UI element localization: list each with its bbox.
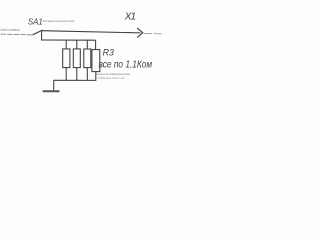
wire: R3.2 top lead [76, 40, 78, 49]
svg-text:SA1: SA1 [28, 18, 43, 27]
resistor R3.4 [92, 50, 100, 72]
wire: dashed continuation to right edge [144, 32, 162, 34]
wire: bottom bus [54, 79, 97, 81]
svg-text:подбирал под пта: подбирал под пта [97, 76, 124, 80]
wire: R3.4 top lead (bus corner) [95, 40, 97, 49]
switch SA1 lever [33, 30, 43, 35]
wire: dashed stub from left edge to SA1 pole [1, 33, 33, 36]
wire: R3.4 bottom lead [95, 72, 97, 81]
svg-text:для переключения настроек: для переключения настроек [43, 19, 76, 23]
wire: R3.1 top lead [65, 40, 67, 49]
wire: R3.3 bottom lead [86, 68, 88, 81]
wire: R3.2 bottom lead [76, 68, 78, 81]
connector X1 arrow head [137, 28, 143, 37]
svg-text:X1: X1 [124, 12, 136, 23]
wire: R3.1 bottom lead [65, 68, 67, 81]
resistor R3.1 [63, 49, 70, 68]
svg-text:вход от платы: вход от платы [1, 28, 21, 32]
wire: junction drop to bus [41, 31, 43, 40]
svg-text:R3: R3 [103, 47, 114, 57]
ground [43, 90, 60, 92]
resistor R3.3 [84, 49, 91, 68]
svg-text:все по 1.1Ком: все по 1.1Ком [99, 59, 153, 70]
wire: top bus [41, 39, 96, 41]
wire: R3.3 top lead [86, 40, 88, 49]
wire: ground drop [53, 80, 55, 91]
resistor R3.2 [73, 49, 80, 68]
wire: SA1 to X1 arrow [42, 31, 141, 33]
